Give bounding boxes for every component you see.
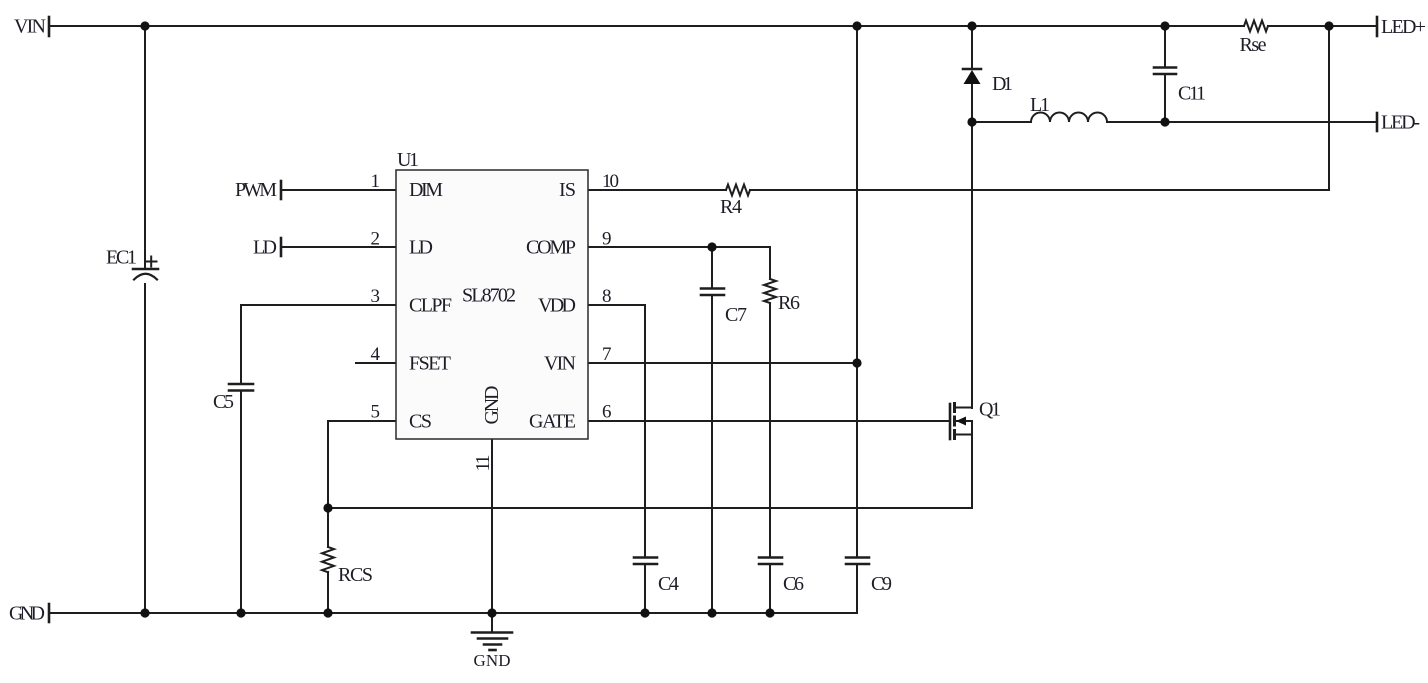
svg-text:2: 2 <box>371 229 381 250</box>
svg-text:6: 6 <box>602 402 612 423</box>
svg-text:C5: C5 <box>213 391 234 413</box>
svg-text:IS: IS <box>559 179 576 201</box>
svg-text:DIM: DIM <box>409 179 443 201</box>
svg-text:LD: LD <box>409 237 433 259</box>
svg-text:D1: D1 <box>992 73 1013 95</box>
svg-text:LED-: LED- <box>1381 112 1420 134</box>
svg-text:EC1: EC1 <box>106 247 137 269</box>
svg-text:1: 1 <box>371 171 381 192</box>
svg-text:8: 8 <box>602 286 612 307</box>
svg-text:GND: GND <box>474 651 511 670</box>
svg-text:C6: C6 <box>783 573 804 595</box>
svg-text:LED+: LED+ <box>1381 16 1426 38</box>
svg-text:5: 5 <box>371 402 381 423</box>
svg-text:PWM: PWM <box>235 179 277 201</box>
svg-text:3: 3 <box>371 286 381 307</box>
svg-text:7: 7 <box>602 344 612 365</box>
svg-text:GATE: GATE <box>529 411 576 433</box>
svg-text:9: 9 <box>602 229 612 250</box>
svg-text:VIN: VIN <box>544 353 576 375</box>
svg-text:CLPF: CLPF <box>409 295 452 317</box>
svg-text:L1: L1 <box>1030 94 1050 116</box>
svg-text:Rse: Rse <box>1240 34 1267 56</box>
svg-text:C4: C4 <box>658 573 679 595</box>
svg-text:C7: C7 <box>725 304 747 326</box>
svg-text:Q1: Q1 <box>979 399 1001 421</box>
svg-text:11: 11 <box>472 455 494 472</box>
svg-text:10: 10 <box>602 171 619 192</box>
svg-text:U1: U1 <box>397 149 419 171</box>
svg-text:SL8702: SL8702 <box>462 285 516 307</box>
svg-text:R4: R4 <box>720 196 742 218</box>
svg-text:CS: CS <box>409 411 432 433</box>
svg-text:GND: GND <box>9 603 45 625</box>
svg-text:VIN: VIN <box>14 16 46 38</box>
svg-text:GND: GND <box>481 386 503 425</box>
svg-text:COMP: COMP <box>526 237 576 259</box>
svg-text:C11: C11 <box>1178 83 1206 105</box>
svg-text:R6: R6 <box>778 292 800 314</box>
svg-text:VDD: VDD <box>538 295 576 317</box>
svg-text:4: 4 <box>371 344 381 365</box>
svg-text:RCS: RCS <box>338 564 373 586</box>
svg-text:FSET: FSET <box>409 353 451 375</box>
svg-text:LD: LD <box>253 237 277 259</box>
svg-text:C9: C9 <box>871 573 892 595</box>
